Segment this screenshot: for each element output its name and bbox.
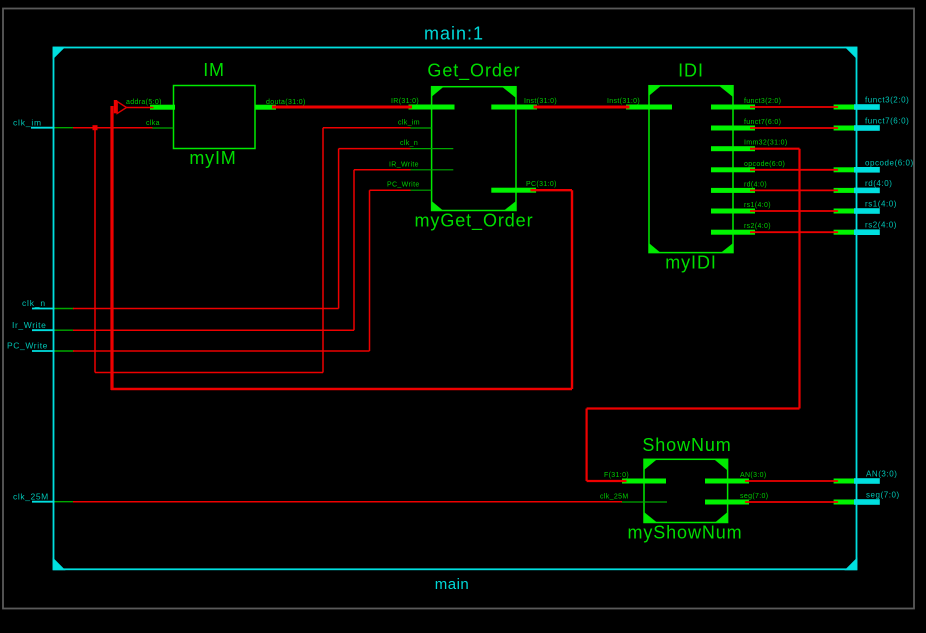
svg-text:F(31:0): F(31:0)	[604, 472, 629, 479]
svg-text:IDI: IDI	[678, 61, 704, 81]
wire bus Imm32: to ShowNum F pin	[587, 480, 627, 482]
wire Ir_Write: to Get_Order IR_Write pin	[354, 169, 411, 171]
svg-text:PC_Write: PC_Write	[7, 341, 48, 351]
pin clka of myIM	[146, 120, 174, 128]
pin rs1(4:0) of myIDI	[711, 202, 771, 214]
input port clk_n	[22, 298, 74, 309]
buffer B1 on addra bus	[114, 100, 127, 114]
wire bus rd to port	[750, 189, 838, 191]
wire clk_n: port to riser	[73, 308, 339, 310]
svg-text:rs2(4:0): rs2(4:0)	[744, 223, 771, 230]
output port opcode(6:0)	[834, 158, 914, 172]
wire clk_25M: port to ShowNum	[73, 501, 622, 503]
svg-text:IM: IM	[203, 60, 225, 80]
block main boundary	[53, 47, 858, 571]
svg-text:IR_Write: IR_Write	[389, 161, 419, 168]
pin PC_Write of myGet_Order	[387, 182, 432, 191]
svg-text:clka: clka	[146, 120, 160, 127]
wire bus Imm32: horizontal left	[587, 407, 800, 409]
svg-text:AN(3:0): AN(3:0)	[740, 472, 767, 479]
svg-text:opcode(6:0): opcode(6:0)	[744, 161, 785, 168]
svg-text:Ir_Write: Ir_Write	[12, 320, 46, 330]
svg-text:clk_im: clk_im	[13, 117, 42, 127]
svg-text:myGet_Order: myGet_Order	[415, 211, 534, 232]
input port PC_Write	[7, 341, 74, 351]
wire Ir_Write: riser	[353, 170, 355, 330]
pin AN(3:0) of myShowNum	[705, 472, 767, 484]
svg-text:clk_n: clk_n	[22, 298, 46, 308]
svg-text:rs1(4:0): rs1(4:0)	[865, 200, 897, 209]
svg-text:clk_25M: clk_25M	[600, 494, 629, 501]
wire bus opcode to port	[750, 169, 838, 171]
svg-text:douta(31:0): douta(31:0)	[266, 99, 306, 106]
pin IR(31:0) of myGet_Order	[391, 98, 455, 110]
svg-text:rd(4:0): rd(4:0)	[865, 179, 892, 188]
pin rs2(4:0) of myIDI	[711, 223, 771, 235]
svg-text:Inst(31:0): Inst(31:0)	[524, 98, 557, 105]
wire clk_im: port to IM clka	[73, 127, 153, 129]
svg-text:funct3(2:0): funct3(2:0)	[865, 96, 909, 105]
pin douta(31:0) of myIM	[255, 99, 306, 110]
svg-text:PC(31:0): PC(31:0)	[526, 181, 557, 188]
output port seg(7:0)	[834, 491, 900, 505]
wire clk_n: to Get_Order clk_n pin	[339, 148, 411, 150]
pin addra(5:0) of myIM	[126, 99, 175, 110]
pin Imm32(31:0) of myIDI	[711, 140, 788, 152]
wire clk_n: riser	[338, 149, 340, 309]
wire bus funct3 to port	[750, 106, 838, 108]
wire bus Imm32: down to F row	[585, 409, 587, 482]
wire bus PC: riser to buffer	[110, 106, 113, 390]
svg-text:Imm32(31:0): Imm32(31:0)	[744, 140, 788, 147]
pin F(31:0) of myShowNum	[604, 472, 666, 484]
wire bus PC: down	[571, 190, 573, 389]
svg-text:funct3(2:0): funct3(2:0)	[744, 98, 781, 105]
junction on clk_im net	[93, 125, 98, 130]
output port AN(3:0)	[834, 470, 898, 484]
svg-text:myIM: myIM	[189, 148, 236, 168]
component Get_Order (instance myGet_Order)	[415, 61, 534, 232]
pin PC(31:0) of myGet_Order	[491, 181, 557, 193]
svg-text:PC_Write: PC_Write	[387, 182, 420, 189]
svg-text:opcode(6:0): opcode(6:0)	[865, 158, 914, 167]
wire clk_im: to Get_Order clk_im pin	[323, 127, 411, 129]
svg-text:Inst(31:0): Inst(31:0)	[607, 98, 640, 105]
output port rs1(4:0)	[834, 200, 897, 214]
svg-text:Get_Order: Get_Order	[427, 61, 520, 82]
svg-text:clk_im: clk_im	[398, 120, 420, 127]
pin clk_im of myGet_Order	[398, 120, 432, 129]
wire bus rs1 to port	[750, 210, 838, 212]
pin seg(7:0) of myShowNum	[705, 493, 768, 505]
wire bus Inst: Get_Order to IDI	[534, 106, 630, 109]
svg-text:main:1: main:1	[424, 24, 484, 44]
pin IR_Write of myGet_Order	[389, 161, 453, 170]
svg-text:seg(7:0): seg(7:0)	[740, 493, 768, 500]
svg-text:clk_n: clk_n	[400, 140, 418, 147]
pin rd(4:0) of myIDI	[711, 181, 767, 193]
wire bus seg to port	[745, 501, 838, 503]
wire PC_Write: riser	[369, 190, 371, 351]
svg-text:funct7(6:0): funct7(6:0)	[865, 117, 909, 126]
input port Ir_Write	[12, 320, 74, 330]
pin funct3(2:0) of myIDI	[711, 98, 781, 110]
component IDI (instance myIDI)	[649, 61, 733, 273]
component ShowNum (instance myShowNum)	[627, 435, 742, 543]
wire bus Imm32: down	[798, 149, 800, 409]
svg-text:seg(7:0): seg(7:0)	[866, 491, 900, 500]
pin Inst(31:0) of myIDI	[607, 98, 672, 110]
wire bus douta to IR	[272, 106, 412, 109]
svg-text:rs2(4:0): rs2(4:0)	[865, 221, 897, 230]
svg-text:funct7(6:0): funct7(6:0)	[744, 119, 781, 126]
pin Inst(31:0) of myGet_Order	[491, 98, 557, 110]
svg-text:IR(31:0): IR(31:0)	[391, 98, 419, 105]
input port clk_25M	[13, 491, 74, 501]
svg-text:myShowNum: myShowNum	[627, 523, 742, 543]
svg-text:main: main	[435, 576, 470, 593]
pin clk_n of myGet_Order	[400, 140, 453, 149]
output port rs2(4:0)	[834, 221, 897, 235]
wire bus PC: long bottom horizontal	[111, 388, 572, 391]
pin clk_25M of myShowNum	[600, 494, 667, 503]
wire clk_im: junction down	[94, 128, 96, 373]
pin opcode(6:0) of myIDI	[711, 161, 785, 173]
wire bus funct7 to port	[750, 127, 838, 129]
output port funct7(6:0)	[834, 117, 910, 131]
output port funct3(2:0)	[834, 96, 910, 110]
svg-text:myIDI: myIDI	[665, 253, 717, 273]
wire addra: buffer to pin	[127, 107, 154, 109]
wire bus Imm32: pin to corner	[750, 148, 800, 150]
svg-text:addra(5:0): addra(5:0)	[126, 99, 162, 106]
wire clk_im: riser to Get_Order	[322, 128, 324, 373]
wire clk_im: bottom horizontal	[95, 372, 323, 374]
output port rd(4:0)	[834, 179, 893, 193]
input port clk_im	[13, 117, 74, 127]
wire PC_Write: port to riser	[73, 350, 370, 352]
wire PC_Write: to Get_Order PC_Write pin	[370, 189, 411, 191]
svg-text:ShowNum: ShowNum	[642, 435, 731, 455]
component IM (instance myIM)	[174, 60, 256, 168]
svg-text:rd(4:0): rd(4:0)	[744, 181, 767, 188]
wire bus PC: pin to corner	[531, 189, 573, 191]
svg-text:AN(3:0): AN(3:0)	[866, 470, 897, 479]
svg-text:rs1(4:0): rs1(4:0)	[744, 202, 771, 209]
pin funct7(6:0) of myIDI	[711, 119, 781, 131]
wire bus AN to port	[745, 480, 838, 482]
svg-text:clk_25M: clk_25M	[13, 491, 49, 501]
wire bus rs2 to port	[750, 231, 838, 233]
wire Ir_Write: port to riser	[73, 329, 354, 331]
